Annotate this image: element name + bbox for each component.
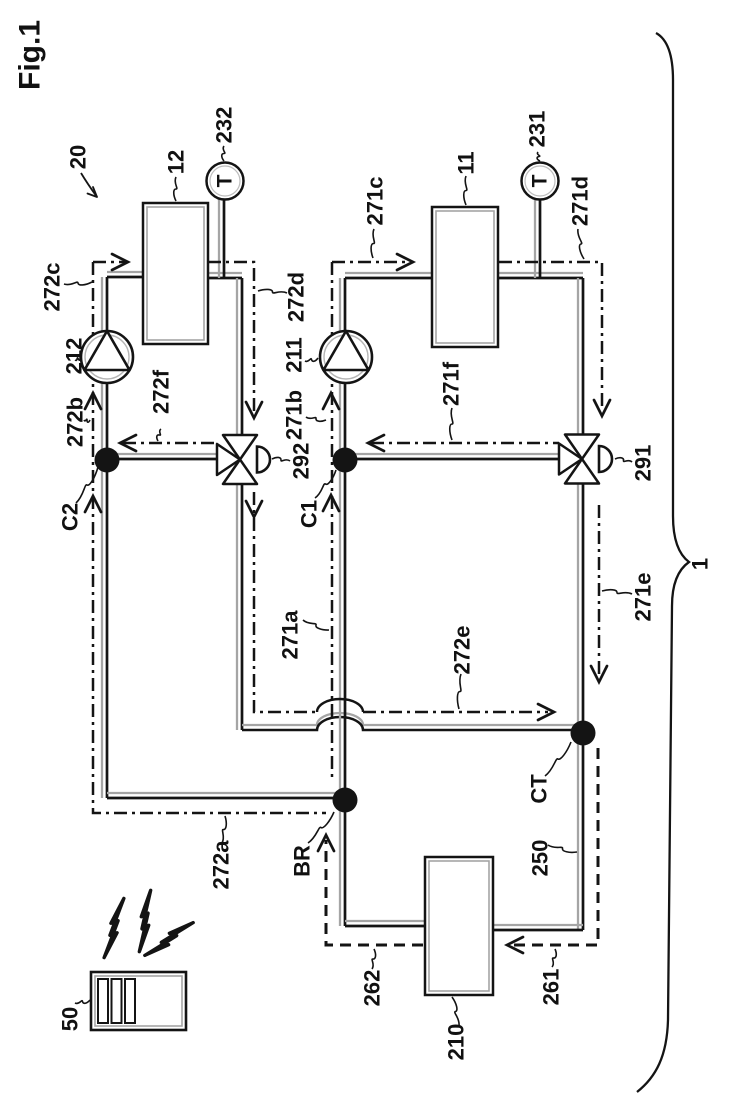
- svg-text:271f: 271f: [439, 361, 464, 406]
- svg-text:261: 261: [539, 969, 564, 1006]
- svg-text:212: 212: [62, 338, 87, 375]
- svg-text:20: 20: [66, 145, 91, 169]
- svg-text:211: 211: [282, 337, 307, 373]
- svg-text:CT: CT: [527, 774, 552, 804]
- svg-text:272e: 272e: [450, 626, 475, 675]
- svg-text:292: 292: [289, 443, 314, 480]
- svg-text:11: 11: [454, 151, 479, 174]
- svg-text:250: 250: [528, 840, 553, 877]
- svg-text:1: 1: [688, 558, 713, 570]
- svg-text:12: 12: [164, 150, 189, 174]
- svg-text:271a: 271a: [278, 610, 303, 660]
- svg-text:231: 231: [525, 111, 550, 148]
- svg-text:272c: 272c: [40, 263, 65, 312]
- svg-text:271d: 271d: [568, 176, 593, 226]
- svg-text:C1: C1: [297, 500, 322, 528]
- svg-text:50: 50: [58, 1007, 83, 1031]
- svg-text:291: 291: [631, 445, 656, 482]
- svg-text:271c: 271c: [363, 177, 388, 226]
- svg-text:272a: 272a: [209, 840, 234, 890]
- svg-text:271e: 271e: [631, 573, 656, 622]
- svg-text:BR: BR: [290, 845, 315, 877]
- svg-text:232: 232: [212, 107, 237, 144]
- svg-text:271b: 271b: [282, 390, 307, 440]
- svg-text:Fig.1: Fig.1: [14, 20, 47, 90]
- svg-text:272d: 272d: [284, 272, 309, 322]
- svg-text:T: T: [214, 174, 237, 187]
- svg-text:T: T: [529, 174, 552, 187]
- svg-text:C2: C2: [58, 503, 83, 531]
- svg-text:272b: 272b: [63, 397, 88, 447]
- svg-text:210: 210: [444, 1024, 469, 1061]
- svg-text:262: 262: [360, 970, 385, 1007]
- svg-text:272f: 272f: [149, 369, 174, 414]
